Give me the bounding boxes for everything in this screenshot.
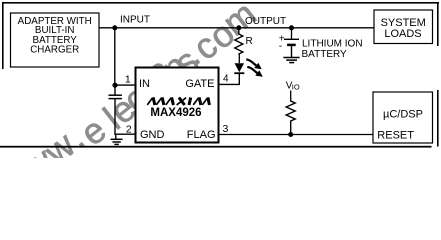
- IC U1 MAX4926 box: [136, 68, 219, 143]
- svg-text:LITHIUM ION: LITHIUM ION: [302, 39, 363, 50]
- battery B1 short plate: [287, 44, 296, 47]
- wire main top rail: [99, 27, 374, 29]
- resistor R2 pullup: [286, 100, 295, 135]
- uC/DSP box: [373, 92, 433, 143]
- ground battery: [283, 58, 299, 63]
- adapter box: [11, 13, 100, 67]
- node battery junction: [289, 25, 294, 30]
- svg-text:R: R: [246, 36, 253, 47]
- node pin1 junction: [112, 83, 117, 88]
- svg-text:MAX4926: MAX4926: [150, 107, 201, 119]
- ground under pin2: [111, 134, 123, 144]
- svg-text:4: 4: [223, 73, 229, 84]
- node input junction: [112, 25, 117, 30]
- LED light arrow 1: [246, 59, 261, 69]
- frame top border: [2, 2, 439, 4]
- svg-text:µC/DSP: µC/DSP: [383, 109, 423, 121]
- LED light arrow 2: [247, 67, 262, 77]
- frame right border lower segment: [437, 90, 439, 147]
- svg-text:INPUT: INPUT: [120, 15, 150, 26]
- frame bottom border: [0, 146, 432, 148]
- svg-text:1: 1: [125, 74, 131, 86]
- watermark www.elecfans.com: [0, 0, 264, 203]
- frame left border: [2, 2, 4, 69]
- svg-text:RESET: RESET: [377, 130, 414, 142]
- LED D1 cathode bar: [234, 72, 244, 74]
- battery bottom lead: [291, 45, 293, 57]
- capacitor C1 top lead: [114, 85, 116, 94]
- svg-text:2: 2: [126, 124, 132, 136]
- svg-text:IN: IN: [139, 78, 150, 90]
- wire pin2: [114, 133, 136, 135]
- svg-text:LOADS: LOADS: [384, 28, 421, 40]
- capacitor C1: [109, 94, 122, 96]
- wire input down to pin1: [114, 28, 116, 85]
- frame right border upper segment: [437, 2, 439, 46]
- wire VIO stub: [290, 91, 292, 100]
- svg-text:3: 3: [223, 123, 229, 135]
- svg-text:GND: GND: [140, 129, 165, 141]
- capacitor C1 bottom lead to gnd rail: [114, 99, 116, 135]
- node output R junction: [236, 25, 241, 30]
- system loads box: [374, 10, 433, 44]
- svg-text:BATTERY: BATTERY: [302, 49, 348, 60]
- node flag junction: [288, 132, 293, 137]
- svg-text:CHARGER: CHARGER: [30, 44, 79, 55]
- battery B1 positive lead: [291, 28, 293, 40]
- MAXIM logo: [147, 97, 209, 105]
- battery B1 long plate: [284, 38, 299, 40]
- svg-text:GATE: GATE: [185, 78, 214, 90]
- svg-text:IO: IO: [292, 83, 300, 92]
- wire LED to resistor: [238, 55, 240, 64]
- LED D1 triangle: [235, 63, 245, 72]
- svg-text:FLAG: FLAG: [187, 129, 216, 141]
- resistor R: [235, 28, 243, 55]
- wire pin4 gate: [219, 74, 240, 84]
- wire pin3 flag to reset: [219, 134, 374, 136]
- svg-text:-: -: [279, 41, 282, 52]
- svg-text:OUTPUT: OUTPUT: [245, 16, 286, 27]
- wire pin1: [115, 84, 136, 86]
